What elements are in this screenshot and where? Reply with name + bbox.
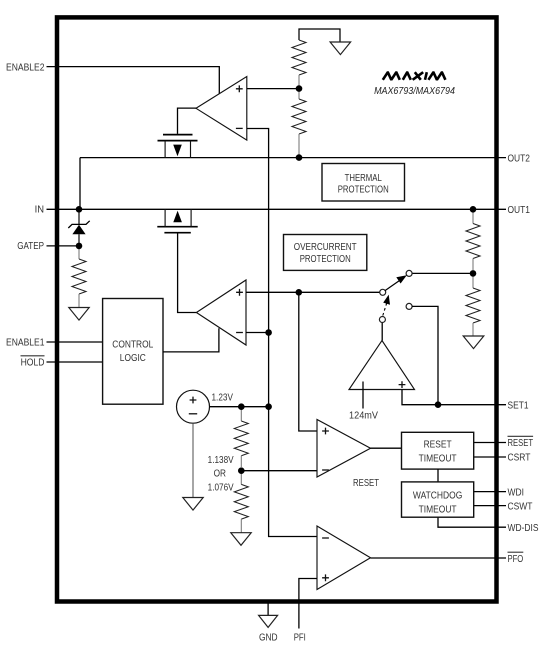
- svg-text:TIMEOUT: TIMEOUT: [419, 504, 457, 516]
- switch throw contact C: [406, 303, 412, 309]
- junction gate divider tap (U1 +): [296, 85, 303, 92]
- wire U4 output to reset timeout: [371, 447, 402, 449]
- svg-text:1.23V: 1.23V: [212, 391, 234, 403]
- voltage reference 1.23V: [177, 390, 210, 423]
- junction IN / Q1 source / zener: [76, 206, 83, 213]
- svg-text:GND: GND: [259, 632, 278, 644]
- svg-text:ENABLE1: ENABLE1: [6, 337, 44, 349]
- overcurrent protection block: [284, 235, 367, 271]
- wire RESET pin: [474, 442, 506, 444]
- wire switch throw A to OUT1 divider tap: [412, 272, 473, 274]
- wire U3 - input (124mV offset): [362, 382, 364, 409]
- ground arrow (top, charge-pump return): [330, 42, 351, 55]
- wire U1 - input to 1.23V net: [247, 129, 317, 537]
- svg-text:SET1: SET1: [508, 400, 529, 412]
- junction OUT1 divider tap: [470, 270, 477, 277]
- resistor R6 (threshold divider upper): [240, 407, 242, 421]
- wire U2 - input to 1.23V net: [246, 332, 269, 334]
- wire SET1: [438, 404, 506, 406]
- wire reset timeout to watchdog timeout: [437, 469, 439, 482]
- wire U5 + input from PFI: [299, 579, 317, 629]
- svg-text:THERMAL: THERMAL: [345, 172, 382, 183]
- junction gate divider bottom on OUT2: [296, 154, 303, 161]
- thermal protection block: [322, 164, 405, 202]
- switch wiper contact B: [380, 289, 386, 295]
- junction GATEP / zener / R3: [76, 243, 83, 250]
- resistor R4 (OUT1 divider upper): [472, 213, 474, 224]
- zener diode D1 (IN to GATEP): [68, 213, 89, 244]
- junction 1.23V on reference net: [265, 403, 272, 410]
- wire HOLD to control logic: [47, 361, 103, 363]
- wire switch throw C to SET1: [412, 306, 438, 404]
- svg-text:124mV: 124mV: [349, 410, 378, 422]
- op-amp U1 (ENABLE2 gate driver): [196, 77, 247, 141]
- svg-text:IN: IN: [35, 204, 44, 216]
- svg-text:PROTECTION: PROTECTION: [338, 183, 389, 194]
- svg-text:OUT1: OUT1: [508, 204, 531, 216]
- transistor Q1 (OUT2 pass P-FET): [158, 135, 198, 158]
- svg-text:WD-DIS: WD-DIS: [508, 522, 539, 534]
- reset timeout block: [402, 432, 474, 469]
- wire U3 output stub to switch: [381, 323, 383, 341]
- junction overcurrent sense node: [296, 289, 303, 296]
- ground arrow (threshold divider): [231, 533, 251, 546]
- svg-text:OUT2: OUT2: [508, 152, 531, 164]
- ground arrow (reference): [183, 498, 203, 511]
- svg-text:RESET: RESET: [424, 439, 452, 451]
- wire OUT2 rail: [80, 157, 506, 159]
- junction OUT1 divider top: [470, 206, 477, 213]
- resistor R3 (GATEP pulldown): [78, 249, 80, 259]
- dashed actuator from comparator U3: [383, 295, 390, 316]
- ground arrow (GND pin): [259, 615, 278, 627]
- op-amp U4 (reset comparator): [317, 420, 371, 478]
- op-amp U5 (power-fail comparator): [317, 526, 371, 590]
- svg-text:OR: OR: [214, 468, 227, 480]
- op-amp U3 (124mV overcurrent comparator): [349, 341, 415, 390]
- svg-text:RESET: RESET: [353, 477, 379, 488]
- junction threshold divider top: [238, 403, 245, 410]
- watchdog timeout block: [402, 482, 474, 517]
- svg-text:LOGIC: LOGIC: [120, 352, 146, 364]
- wire control logic to U2 enable: [163, 328, 219, 352]
- wire reference output: [210, 406, 269, 408]
- wire U3 + input to SET1: [402, 390, 438, 405]
- switch actuator circle: [379, 317, 385, 323]
- transistor Q2 (OUT1 pass P-FET): [157, 209, 197, 232]
- IC boundary box: [57, 17, 497, 601]
- svg-text:1.138V: 1.138V: [208, 453, 235, 465]
- svg-text:OVERCURRENT: OVERCURRENT: [294, 240, 357, 252]
- wire WDI pin: [474, 491, 506, 493]
- svg-text:1.076V: 1.076V: [208, 481, 235, 493]
- svg-text:GATEP: GATEP: [17, 240, 44, 251]
- resistor R2 (gate divider lower): [292, 99, 306, 134]
- svg-text:MAX6793/MAX6794: MAX6793/MAX6794: [374, 86, 455, 98]
- ground arrow (OUT1 divider): [463, 336, 484, 349]
- svg-text:WATCHDOG: WATCHDOG: [413, 490, 462, 502]
- op-amp U2 (OUT1 gate driver): [196, 280, 246, 345]
- wire U2 + input to current-limit switch: [246, 291, 380, 293]
- svg-text:WDI: WDI: [508, 486, 524, 498]
- ground arrow (GATEP pulldown): [69, 308, 89, 321]
- resistor R1 (gate divider upper): [292, 40, 306, 75]
- wire R1 to R2: [298, 75, 300, 99]
- wire CSWT pin: [474, 505, 506, 507]
- wire IN to OUT2 FET source: [79, 158, 81, 210]
- wire R2 to OUT2 rail: [298, 134, 300, 158]
- wire Q2 gate to U2 output: [178, 233, 197, 313]
- resistor R5 (OUT1 divider lower): [472, 277, 474, 288]
- wire ENABLE2 to comparator U1 enable: [47, 67, 220, 94]
- junction U2 - on 1.23V net: [265, 329, 272, 336]
- junction SET1 node: [435, 401, 442, 408]
- switch wiper arm with arrow: [385, 275, 407, 290]
- svg-text:CSWT: CSWT: [508, 501, 533, 513]
- wire U4 + input from OUT1 sense: [299, 292, 317, 431]
- control logic block: [103, 299, 163, 405]
- resistor R7 (threshold divider lower): [240, 474, 242, 484]
- svg-text:ENABLE2: ENABLE2: [6, 62, 44, 74]
- wire GATEP: [47, 245, 80, 247]
- junction threshold divider tap: [238, 467, 245, 474]
- wire ENABLE1 to control logic: [47, 341, 103, 343]
- switch throw contact A: [406, 270, 412, 276]
- wire PFO comparator output: [371, 557, 507, 559]
- svg-text:HOLD: HOLD: [21, 357, 45, 369]
- svg-text:RESET: RESET: [508, 437, 534, 448]
- svg-text:CSRT: CSRT: [508, 452, 531, 464]
- svg-text:PROTECTION: PROTECTION: [300, 253, 351, 264]
- wire top divider to ground arrow: [299, 29, 340, 42]
- wire WD-DIS from watchdog timeout: [438, 517, 506, 527]
- svg-text:TIMEOUT: TIMEOUT: [419, 453, 457, 465]
- wire U1 + input to divider tap: [247, 88, 299, 90]
- wire CSRT pin: [474, 456, 506, 458]
- svg-text:CONTROL: CONTROL: [112, 339, 153, 351]
- wire reference to ground: [192, 423, 194, 497]
- wire GND stub: [267, 602, 269, 615]
- svg-text:PFO: PFO: [508, 553, 524, 564]
- wire IN / OUT1 rail: [47, 208, 507, 210]
- svg-text:PFI: PFI: [294, 632, 306, 643]
- wire threshold tap to U4 - input: [241, 470, 317, 472]
- wire U1 output to Q1 gate: [178, 108, 197, 134]
